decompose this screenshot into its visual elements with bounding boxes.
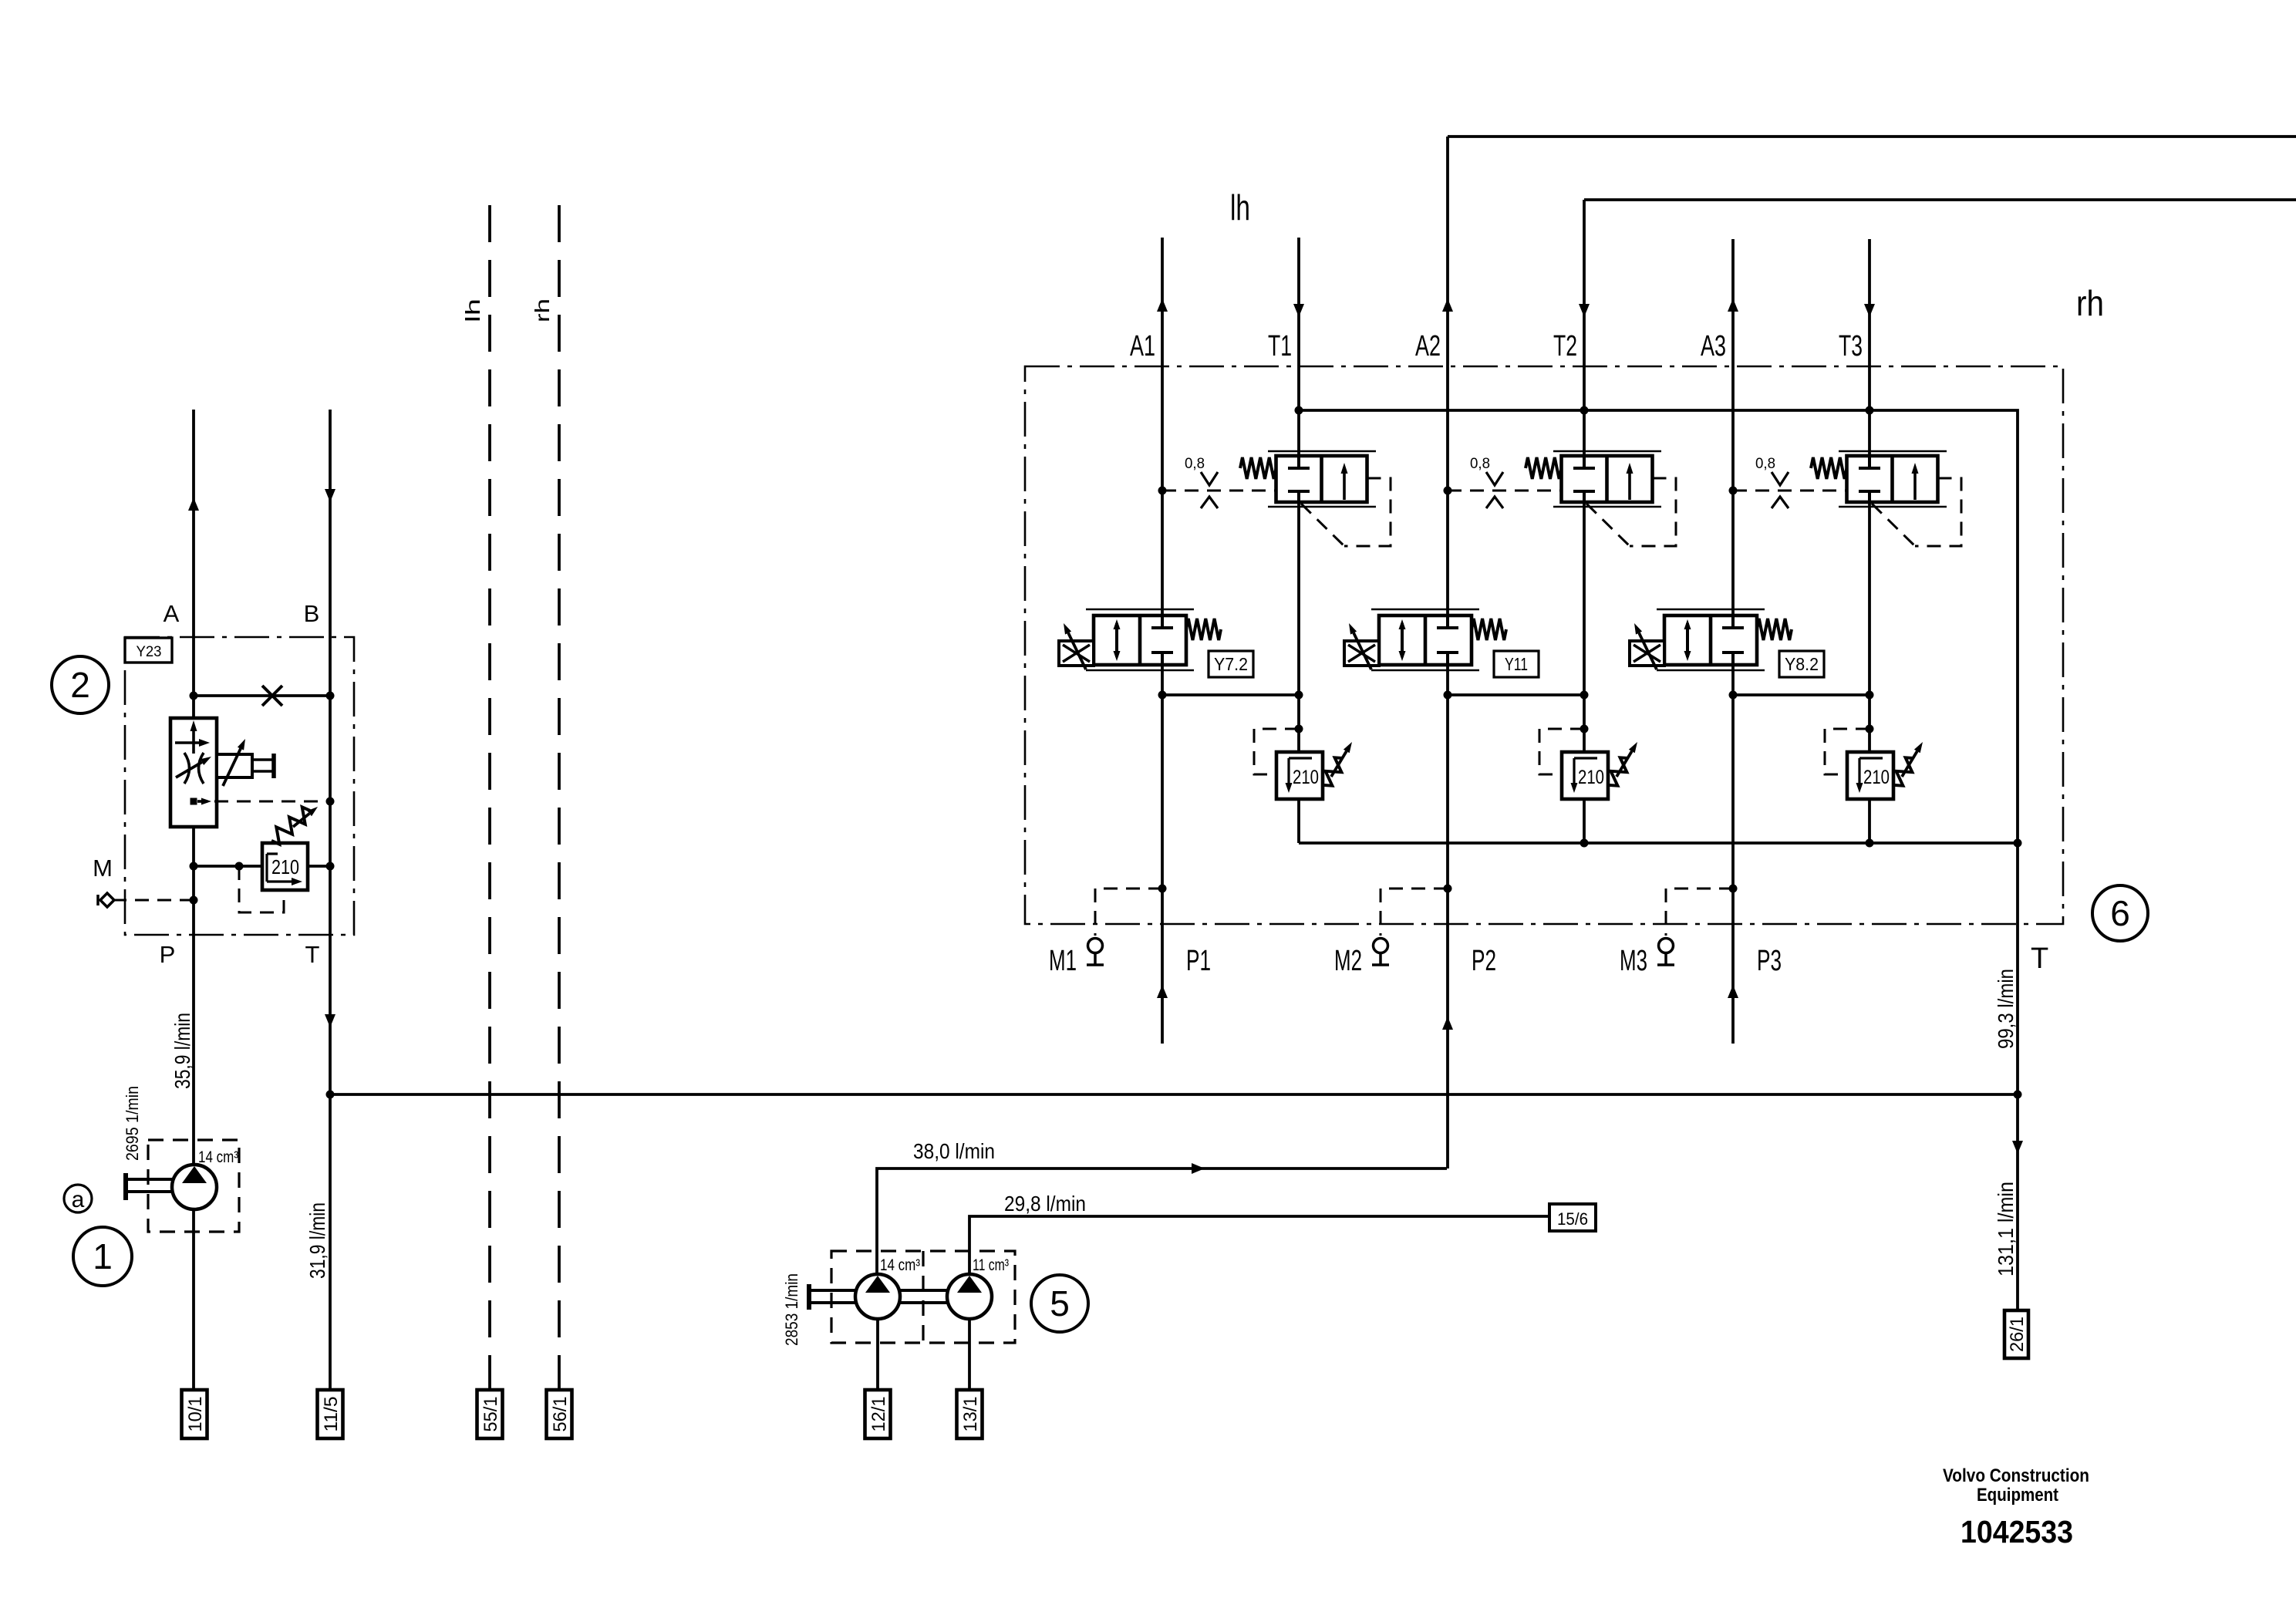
flow arrow down on B line (top) <box>325 489 335 502</box>
svg-text:1042533: 1042533 <box>1961 1514 2073 1549</box>
valve Y8.2 cell divider <box>1709 615 1713 665</box>
svg-text:56/1: 56/1 <box>550 1397 571 1432</box>
node B-line/relief <box>326 862 335 871</box>
node T-port corner <box>2014 839 2022 848</box>
pump 5 right triangle <box>957 1276 982 1293</box>
compensator 2 spring <box>1526 457 1562 479</box>
port M tick <box>96 895 99 905</box>
svg-text:99,3 l/min: 99,3 l/min <box>1994 969 2018 1049</box>
wire A1 line <box>1161 238 1164 1044</box>
relief valve 210 sec2 body <box>1562 752 1608 799</box>
flow arrow up on A line <box>188 497 199 511</box>
flow arrow up A2 <box>1442 298 1453 312</box>
wire A3 line <box>1731 239 1735 1044</box>
compensator 3 drain loop dashes <box>1915 478 1961 546</box>
pump 5 divider dashed <box>922 1251 924 1343</box>
valve Y7.2 solenoid cross <box>1063 645 1090 662</box>
svg-text:A1: A1 <box>1130 330 1155 363</box>
compensator 2 drain loop dashes <box>1630 478 1676 546</box>
terminator 10/1 <box>182 1390 207 1438</box>
relief 210 sec1 internal arrow <box>1289 757 1312 759</box>
compensator 2 proportional bars <box>1553 450 1661 453</box>
relief 210 internal arrow <box>267 852 278 855</box>
label box Y8.2 <box>1779 651 1824 677</box>
svg-text:35,9 l/min: 35,9 l/min <box>170 1013 194 1089</box>
gauge pilot dashes M1 <box>1095 889 1162 936</box>
pump 1 dashed enclosure <box>148 1140 239 1232</box>
valve Y11 body <box>1379 615 1472 665</box>
node P3 gauge tap <box>1729 885 1738 893</box>
node A2/junction <box>1444 691 1452 700</box>
valve Y8.2 blocked port bottom <box>1722 651 1744 654</box>
wire A-P line (item 2 / pump 1) <box>192 410 195 1165</box>
node A-line/relief <box>190 862 198 871</box>
valve Y7.2 spring <box>1186 619 1221 640</box>
wire lh dashed line <box>488 205 491 1390</box>
wire A2-T2 junction line <box>1448 693 1584 696</box>
valve Y7.2 blocked port bottom <box>1151 651 1173 654</box>
relief valve 210 sec1 body <box>1276 752 1323 799</box>
relief valve 210 (item 2) body <box>262 843 308 890</box>
wire T port line <box>2016 843 2019 1310</box>
gauge pilot dashes M3 <box>1666 889 1733 936</box>
terminator 11/5 <box>318 1390 343 1438</box>
svg-text:6: 6 <box>2110 893 2130 933</box>
svg-text:M1: M1 <box>1049 945 1077 977</box>
svg-text:13/1: 13/1 <box>960 1397 981 1432</box>
node A-line/M <box>190 896 198 905</box>
svg-text:Equipment: Equipment <box>1977 1485 2058 1506</box>
node B-line/cross <box>326 692 335 700</box>
check caret symbol sec2 <box>1486 497 1503 508</box>
wire top feed line to A2 <box>1448 135 2296 138</box>
svg-text:2853 1/min: 2853 1/min <box>782 1273 801 1346</box>
check caret symbol sec1 <box>1201 497 1218 508</box>
flow arrow up A1 <box>1157 298 1168 312</box>
node T1/junction <box>1295 691 1303 700</box>
terminator 56/1 <box>547 1390 572 1438</box>
svg-text:Volvo Construction: Volvo Construction <box>1943 1465 2089 1486</box>
wire relief 210 to B <box>308 865 330 868</box>
valve Y7.2 blocked port top <box>1161 615 1164 628</box>
restrictor adjust arrow <box>223 749 241 786</box>
relief valve 210 sec3 body <box>1847 752 1893 799</box>
compensator 2 blocked port top <box>1583 456 1586 468</box>
svg-text:14 cm³: 14 cm³ <box>880 1256 920 1274</box>
pump 5 coupling <box>900 1289 947 1292</box>
gauge port M2 symbol <box>1374 939 1388 953</box>
valve Y11 solenoid box <box>1344 641 1379 666</box>
wire bypass dashed to B <box>214 801 330 803</box>
check V symbol sec1 <box>1201 472 1218 485</box>
relief pilot dashes sec1 <box>1254 729 1299 774</box>
svg-text:5: 5 <box>1050 1283 1070 1324</box>
valve Y7.2 body <box>1094 615 1186 665</box>
pump 1 shaft bar <box>123 1173 128 1200</box>
flow arrow 38,0 <box>1192 1163 1205 1174</box>
svg-text:12/1: 12/1 <box>868 1397 889 1432</box>
svg-text:15/6: 15/6 <box>1557 1209 1588 1229</box>
node T2/bottom header <box>1580 839 1589 848</box>
flow arrow down T2 <box>1579 304 1590 317</box>
node T2/internal header <box>1580 406 1589 415</box>
svg-text:P1: P1 <box>1186 945 1211 977</box>
svg-text:1: 1 <box>93 1236 113 1276</box>
svg-text:lh: lh <box>461 298 484 322</box>
svg-text:38,0 l/min: 38,0 l/min <box>913 1139 995 1163</box>
manifold 6 dash-dot enclosure <box>1025 366 2063 924</box>
terminator 13/1 <box>957 1390 983 1438</box>
relief 210 pilot dashes <box>239 866 284 912</box>
compensator 2 body <box>1562 456 1653 502</box>
svg-text:a: a <box>72 1187 85 1212</box>
node T3/bottom header <box>1866 839 1874 848</box>
svg-text:29,8 l/min: 29,8 l/min <box>1004 1192 1086 1216</box>
svg-text:M2: M2 <box>1334 945 1362 977</box>
relief 210 sec3 adjust spring <box>1895 757 1913 785</box>
svg-text:26/1: 26/1 <box>2007 1317 2028 1352</box>
wire T3 line <box>1868 239 1871 843</box>
valve Y8.2 flow double arrow <box>1686 623 1689 657</box>
compensator 2 pilot dashed from A2 <box>1448 490 1562 492</box>
wire A to relief 210 <box>194 865 262 868</box>
valve Y11 solenoid arrow <box>1354 633 1371 669</box>
valve Y8.2 spring <box>1757 619 1792 640</box>
svg-text:A3: A3 <box>1701 330 1726 363</box>
check V symbol sec2 <box>1486 472 1503 485</box>
pump 1 shaft <box>127 1178 173 1181</box>
node relief pilot tap <box>235 862 244 871</box>
compensator 1 body <box>1276 456 1367 502</box>
flow control valve body (item 2) <box>170 718 217 827</box>
svg-text:rh: rh <box>531 298 554 322</box>
terminator 26/1 <box>2004 1310 2028 1358</box>
label box Y11 <box>1494 651 1539 677</box>
node A3/junction <box>1729 691 1738 700</box>
svg-text:0,8: 0,8 <box>1185 456 1205 472</box>
svg-text:T2: T2 <box>1553 330 1577 363</box>
node P1 gauge tap <box>1158 885 1167 893</box>
pump 1 triangle <box>182 1166 207 1183</box>
wire A-B cross line <box>194 694 330 697</box>
wire B-T line (item 2) <box>329 410 332 1390</box>
valve Y11 spring <box>1472 619 1506 640</box>
svg-text:Y8.2: Y8.2 <box>1785 654 1819 674</box>
flow arrow down on T line <box>325 1014 335 1027</box>
wire bottom T header <box>1299 841 2018 845</box>
compensator 1 spring <box>1240 457 1276 479</box>
check caret symbol sec3 <box>1772 497 1789 508</box>
compensator 3 cell divider <box>1890 456 1894 502</box>
wire tank return header (99,3) <box>330 1093 2018 1096</box>
compensator 3 drain diagonal dashes <box>1872 504 1915 546</box>
svg-text:210: 210 <box>1863 767 1890 788</box>
compensator 2 blocked port bottom <box>1573 490 1595 493</box>
node A3 pilot tap <box>1729 487 1738 495</box>
svg-text:A2: A2 <box>1415 330 1441 363</box>
wire A3-T3 junction line <box>1733 693 1870 696</box>
wire A2-P2 line <box>1446 137 1449 1168</box>
svg-text:31,9 l/min: 31,9 l/min <box>305 1202 329 1279</box>
node T3/junction <box>1866 691 1874 700</box>
compensator 2 cell divider <box>1605 456 1609 502</box>
wire T2 line <box>1583 200 1586 843</box>
pump 5 dashed enclosure <box>831 1251 1015 1343</box>
relief 210 sec1 adjust spring <box>1324 757 1343 785</box>
compensator 3 blocked port top <box>1868 456 1871 468</box>
svg-text:P2: P2 <box>1472 945 1496 977</box>
flow arrow up A3 <box>1728 298 1738 312</box>
valve block 2 dash-dot enclosure <box>125 637 354 935</box>
wire T1 line <box>1297 238 1300 843</box>
terminator 55/1 <box>477 1390 503 1438</box>
pump 5 circle left <box>855 1274 900 1319</box>
node relief pilot tap sec1 <box>1295 725 1303 733</box>
node A2 pilot tap <box>1444 487 1452 495</box>
node A1 pilot tap <box>1158 487 1167 495</box>
svg-text:0,8: 0,8 <box>1470 456 1490 472</box>
compensator 2 drain diagonal dashes <box>1586 504 1630 546</box>
pump 5 circle right <box>947 1274 992 1319</box>
compensator 3 body <box>1847 456 1938 502</box>
svg-text:11/5: 11/5 <box>321 1397 342 1432</box>
callout circle 2 <box>52 656 109 713</box>
valve Y11 solenoid cross <box>1348 645 1375 662</box>
valve 2 bypass arrow <box>197 800 207 803</box>
valve Y7.2 solenoid box <box>1059 641 1094 666</box>
svg-text:55/1: 55/1 <box>480 1397 501 1432</box>
callout circle 5 <box>1031 1275 1088 1332</box>
compensator 1 blocked port bottom <box>1288 490 1310 493</box>
restrictor plunger rods <box>252 758 272 761</box>
pump 1 circle <box>172 1165 217 1209</box>
compensator 3 proportional bars <box>1839 450 1947 453</box>
valve Y8.2 solenoid arrow <box>1639 633 1657 669</box>
relief 210 sec3 internal arrow <box>1859 757 1883 759</box>
compensator 1 proportional bars <box>1268 450 1376 453</box>
valve Y8.2 body <box>1664 615 1757 665</box>
restrictor plunger bar <box>271 754 276 778</box>
svg-text:131,1 l/min: 131,1 l/min <box>1994 1182 2018 1276</box>
node T3/internal header <box>1866 406 1874 415</box>
flow arrow up P1 <box>1157 985 1168 998</box>
gauge port M1 symbol <box>1088 939 1103 953</box>
wire top feed line to T2 <box>1584 198 2296 201</box>
valve Y8.2 blocked port top <box>1731 615 1735 628</box>
flow control side arrow <box>175 741 201 744</box>
relief 210 sec2 adjust spring <box>1610 757 1628 785</box>
node B-line/bypass <box>326 798 335 806</box>
svg-text:M3: M3 <box>1620 945 1647 977</box>
svg-text:Y23: Y23 <box>137 644 162 660</box>
wire internal T header <box>1299 410 2018 843</box>
svg-text:M: M <box>93 855 113 882</box>
gauge pilot dashes M2 <box>1381 889 1448 936</box>
compensator 1 drain diagonal dashes <box>1301 504 1344 546</box>
compensator 1 pilot dashed from A1 <box>1162 490 1276 492</box>
node relief pilot tap sec2 <box>1580 725 1589 733</box>
svg-text:210: 210 <box>1293 767 1319 788</box>
port M dashed line <box>113 899 194 902</box>
svg-text:T: T <box>2031 943 2048 975</box>
svg-text:11 cm³: 11 cm³ <box>973 1256 1009 1274</box>
node T-line/header <box>326 1091 335 1099</box>
valve Y11 proportional bars <box>1371 609 1479 611</box>
node A1/junction <box>1158 691 1167 700</box>
svg-text:Y7.2: Y7.2 <box>1214 654 1248 674</box>
callout circle 6 <box>2092 885 2148 941</box>
wire pump5 right outlet <box>969 1216 1549 1274</box>
compensator 3 spring <box>1811 457 1847 479</box>
compensator 1 flow arrow <box>1343 469 1346 500</box>
wire A1-T1 junction line <box>1162 693 1299 696</box>
node T2/junction <box>1580 691 1589 700</box>
valve Y11 blocked port bottom <box>1437 651 1458 654</box>
flow control adjust arrow <box>176 762 202 777</box>
flow arrow down T port <box>2012 1141 2023 1154</box>
pump 5 shaft bar <box>807 1284 811 1310</box>
flow arrow up P3 <box>1728 985 1738 998</box>
valve Y8.2 solenoid cross <box>1633 645 1660 662</box>
valve Y8.2 proportional bars <box>1657 609 1765 611</box>
pump 5 shaft <box>811 1289 855 1292</box>
node T1/internal header <box>1295 406 1303 415</box>
svg-text:T1: T1 <box>1268 330 1292 363</box>
variable restrictor box <box>217 754 252 777</box>
compensator 3 flow arrow <box>1913 469 1917 500</box>
svg-text:T3: T3 <box>1839 330 1863 363</box>
compensator 1 blocked port top <box>1297 456 1300 468</box>
label box Y23 <box>125 638 172 663</box>
compensator 1 drain loop dashes <box>1344 478 1391 546</box>
valve 2 bypass node <box>190 798 197 805</box>
terminator 15/6 <box>1549 1204 1596 1231</box>
compensator 2 flow arrow <box>1628 469 1631 500</box>
compensator 3 pilot dashed from A3 <box>1733 490 1847 492</box>
label box Y7.2 <box>1209 651 1253 677</box>
relief pilot dashes sec3 <box>1825 729 1870 774</box>
valve Y7.2 cell divider <box>1138 615 1142 665</box>
svg-text:14 cm³: 14 cm³ <box>198 1148 238 1166</box>
svg-text:B: B <box>304 600 320 627</box>
svg-text:P: P <box>160 941 176 968</box>
valve Y11 blocked port top <box>1446 615 1449 628</box>
svg-text:Y11: Y11 <box>1505 654 1528 674</box>
svg-text:0,8: 0,8 <box>1755 456 1775 472</box>
gauge port M3 symbol <box>1659 939 1674 953</box>
check V symbol sec3 <box>1772 472 1789 485</box>
relief pilot dashes sec2 <box>1539 729 1584 774</box>
flow control throttle curves <box>184 753 204 784</box>
svg-text:10/1: 10/1 <box>185 1397 206 1432</box>
wire pump5 right drain <box>968 1319 971 1390</box>
compensator 3 blocked port bottom <box>1859 490 1880 493</box>
node P2 gauge tap <box>1444 885 1452 893</box>
flow arrow down T3 <box>1864 304 1875 317</box>
valve Y8.2 solenoid box <box>1630 641 1664 666</box>
svg-text:A: A <box>164 600 180 627</box>
svg-text:2695 1/min: 2695 1/min <box>123 1086 142 1161</box>
valve Y11 flow double arrow <box>1401 623 1404 657</box>
wire pump5 left drain <box>876 1319 879 1390</box>
terminator 12/1 <box>865 1390 891 1438</box>
svg-text:P3: P3 <box>1757 945 1782 977</box>
svg-text:rh: rh <box>2076 283 2104 323</box>
callout circle 1 <box>73 1227 132 1286</box>
wire pump5 left outlet <box>877 1168 1447 1274</box>
wire rh dashed line <box>558 205 561 1390</box>
flow control pass-through arrow <box>192 725 195 754</box>
valve Y7.2 proportional bars <box>1086 609 1194 611</box>
pump 5 left triangle <box>865 1276 890 1293</box>
flow arrow down T1 <box>1293 304 1304 317</box>
svg-text:lh: lh <box>1230 187 1250 228</box>
relief 210 sec2 internal arrow <box>1574 757 1597 759</box>
valve Y7.2 solenoid arrow <box>1068 633 1086 669</box>
node header/T-port <box>2014 1091 2022 1099</box>
svg-text:2: 2 <box>70 665 90 705</box>
relief 210 spring <box>271 807 310 844</box>
port M diamond <box>100 893 114 907</box>
svg-text:T: T <box>305 941 320 968</box>
svg-text:210: 210 <box>1578 767 1604 788</box>
valve Y7.2 flow double arrow <box>1115 623 1118 657</box>
flow arrow up P2 <box>1442 1017 1453 1030</box>
compensator 1 cell divider <box>1320 456 1323 502</box>
valve Y11 cell divider <box>1424 615 1428 665</box>
node A-line/cross <box>190 692 198 700</box>
svg-text:210: 210 <box>271 855 299 878</box>
callout circle a <box>64 1185 92 1212</box>
plugged cross symbol X <box>262 686 282 706</box>
node relief pilot tap sec3 <box>1866 725 1874 733</box>
